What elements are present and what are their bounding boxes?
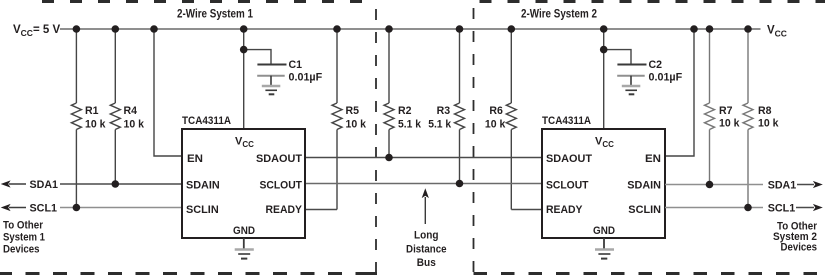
svg-text:SDAIN: SDAIN xyxy=(627,180,661,192)
svg-text:READY: READY xyxy=(266,204,303,216)
svg-text:Distance: Distance xyxy=(406,243,447,255)
junction dot R4-SDA1 xyxy=(112,180,120,188)
svg-text:0.01µF: 0.01µF xyxy=(289,71,323,83)
svg-text:C1: C1 xyxy=(289,59,303,71)
svg-text:10 k: 10 k xyxy=(346,119,367,131)
svg-text:To Other: To Other xyxy=(3,220,44,232)
wire VCC to IC2 VCC pin xyxy=(603,29,605,129)
resistor R4 xyxy=(110,29,120,184)
svg-text:2-Wire System 2: 2-Wire System 2 xyxy=(521,9,597,21)
svg-text:2-Wire System 1: 2-Wire System 1 xyxy=(177,9,254,21)
wire C1 branch xyxy=(244,50,271,65)
junction dots on VCC rail xyxy=(73,25,752,33)
svg-text:SCLIN: SCLIN xyxy=(628,204,661,216)
svg-text:GND: GND xyxy=(233,225,255,237)
svg-text:GND: GND xyxy=(593,225,615,237)
svg-text:System 1: System 1 xyxy=(3,232,45,244)
wire READY2 to R6 xyxy=(511,209,542,211)
resistor R3 xyxy=(455,29,465,184)
svg-text:EN: EN xyxy=(187,153,203,165)
wire EN1 from rail to EN pin xyxy=(154,29,182,156)
svg-text:SDAOUT: SDAOUT xyxy=(256,153,302,165)
ground below C2 xyxy=(622,86,641,94)
junction dot R8-SCL1 right xyxy=(744,204,752,212)
svg-text:SCL1: SCL1 xyxy=(30,203,58,215)
resistor R8 xyxy=(743,29,753,208)
svg-text:10 k: 10 k xyxy=(124,119,145,131)
svg-text:10 k: 10 k xyxy=(719,118,740,130)
svg-text:10 k: 10 k xyxy=(758,118,779,130)
svg-text:R2: R2 xyxy=(398,105,412,117)
svg-text:Devices: Devices xyxy=(3,244,40,256)
svg-text:R1: R1 xyxy=(85,105,99,117)
svg-text:10 k: 10 k xyxy=(85,119,106,131)
svg-text:5.1 k: 5.1 k xyxy=(428,119,452,131)
svg-text:R7: R7 xyxy=(719,105,733,117)
ground below IC U1 xyxy=(235,238,254,259)
wire SDA1 right from SDAIN xyxy=(665,184,763,186)
arrow SCL1 left xyxy=(1,204,11,211)
junction dot R7-SDA1 right xyxy=(706,181,714,189)
arrow SCL1 right xyxy=(813,204,823,211)
arrow Long Distance Bus xyxy=(422,188,429,224)
svg-text:R6: R6 xyxy=(489,105,503,117)
dashed border box 2 top xyxy=(480,0,825,3)
svg-text:VCC= 5 V: VCC= 5 V xyxy=(13,24,60,38)
wire C2 branch xyxy=(604,50,631,65)
dashed border box 1 top xyxy=(42,0,376,3)
dashed border box 2 bottom xyxy=(474,272,825,275)
ground below C1 xyxy=(262,86,281,94)
arrow SDA1 left xyxy=(1,180,11,187)
resistor R7 xyxy=(705,29,715,185)
resistor R5 xyxy=(332,29,342,210)
dashed border box 1 bottom xyxy=(0,272,377,275)
svg-text:R4: R4 xyxy=(124,105,138,117)
svg-text:R8: R8 xyxy=(758,105,772,117)
junction dot R3-SCL bus xyxy=(456,180,464,188)
wire SCL1 left stub xyxy=(9,207,26,209)
svg-text:SDAIN: SDAIN xyxy=(186,180,220,192)
IC U2 TCA4311A box xyxy=(542,129,665,238)
svg-text:SCLOUT: SCLOUT xyxy=(546,180,589,192)
svg-text:TCA4311A: TCA4311A xyxy=(542,115,591,127)
wire READY1 to R5 xyxy=(305,209,337,211)
dashed border box 1 right vertical xyxy=(375,9,377,274)
wire SDA long distance bus xyxy=(305,157,542,159)
wire SCL long distance bus xyxy=(305,183,542,185)
ground below IC U2 xyxy=(595,238,614,259)
resistor R6 xyxy=(506,29,516,210)
svg-text:SCL1: SCL1 xyxy=(768,203,796,215)
junction dot R2-SDA bus xyxy=(385,154,393,162)
svg-text:C2: C2 xyxy=(649,59,663,71)
svg-text:READY: READY xyxy=(546,204,583,216)
svg-text:Devices: Devices xyxy=(781,241,818,253)
svg-text:Bus: Bus xyxy=(417,257,436,269)
junction dot R1-SCL1 xyxy=(73,204,81,212)
wire VCC rail xyxy=(60,28,761,30)
wire SCL1 left to SCLIN xyxy=(60,207,182,209)
wire VCC to IC1 VCC pin xyxy=(243,29,245,129)
svg-text:0.01µF: 0.01µF xyxy=(649,71,683,83)
wire SDA1 left to SDAIN xyxy=(60,183,182,185)
resistor R1 xyxy=(71,29,81,208)
svg-text:SDAOUT: SDAOUT xyxy=(546,153,592,165)
capacitor C1 xyxy=(257,65,286,86)
wire SDA1 left stub xyxy=(9,183,26,185)
junction dot C2 branch xyxy=(600,46,608,54)
junction dot C1 branch xyxy=(240,46,248,54)
svg-text:SDA1: SDA1 xyxy=(768,180,797,192)
wire SCL1 right from SCLIN xyxy=(665,207,763,209)
svg-text:SCLIN: SCLIN xyxy=(186,204,219,216)
IC U1 TCA4311A box xyxy=(182,129,305,238)
svg-text:EN: EN xyxy=(645,153,661,165)
svg-text:R5: R5 xyxy=(346,105,360,117)
dashed border box 2 left vertical xyxy=(473,8,475,274)
svg-text:TCA4311A: TCA4311A xyxy=(182,115,231,127)
svg-text:R3: R3 xyxy=(437,105,451,117)
capacitor C2 xyxy=(617,65,646,86)
wire SCL1 right stub xyxy=(796,207,814,209)
dashed border box 1 bottom-right corner piece xyxy=(366,272,377,275)
svg-text:SCLOUT: SCLOUT xyxy=(260,180,303,192)
wire SDA1 right stub xyxy=(797,184,814,186)
svg-text:5.1 k: 5.1 k xyxy=(398,119,422,131)
wire EN2 from rail to EN pin xyxy=(665,29,694,156)
resistor R2 xyxy=(384,29,394,158)
svg-text:Long: Long xyxy=(414,230,439,242)
svg-text:SDA1: SDA1 xyxy=(30,179,59,191)
svg-text:10 k: 10 k xyxy=(485,119,506,131)
arrow SDA1 right xyxy=(813,181,823,188)
